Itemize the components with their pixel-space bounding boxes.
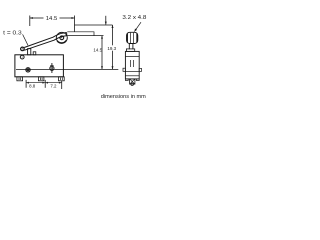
svg-text:7.2: 7.2 (50, 83, 57, 88)
switch body side view (125, 51, 139, 79)
mounting lug left (side view) (123, 68, 125, 71)
top dimension 14.5: dimension line with arrows (30, 17, 44, 19)
dimension line 14.5 (right, vertical) (101, 36, 103, 70)
extension line below terminal 2 (44, 80, 46, 88)
bottom dimension line 8.8 (26, 82, 45, 84)
svg-text:14.5: 14.5 (46, 16, 58, 22)
centerline through mounting holes (also bottom reference of right dims) (16, 68, 118, 70)
roller front view (56, 32, 67, 43)
white box behind 19.3 label (108, 45, 117, 50)
terminal 1 (17, 77, 23, 81)
mounting hole lower-left (26, 68, 30, 72)
terminal side view with hatch (130, 79, 135, 84)
extension line below terminal 1 (25, 80, 27, 88)
extension line B from roller top (67, 32, 94, 36)
boss on body top (33, 52, 36, 55)
mounting hole upper-left (20, 55, 24, 59)
switch body front view (15, 55, 64, 77)
leader line for t=0.3 (23, 34, 28, 45)
terminal 3 (59, 77, 65, 81)
lever arm (24, 33, 67, 51)
internal contact lines side view (129, 60, 131, 67)
svg-text:14.5: 14.5 (93, 48, 102, 53)
svg-text:8.8: 8.8 (29, 83, 36, 88)
roller side view (127, 32, 138, 43)
terminal 2 (38, 77, 44, 81)
adjustment screw with slot (50, 66, 54, 70)
extension line below terminal 3 (61, 81, 63, 90)
svg-text:dimensions in mm: dimensions in mm (101, 94, 146, 100)
foot left (side view) (125, 79, 128, 81)
leader line for 3.2 x 4.8 roller size (134, 22, 141, 31)
plunger (28, 49, 31, 55)
lever neck side view (128, 44, 130, 50)
top dimension 14.5: left extension line (29, 16, 31, 27)
svg-text:19.3: 19.3 (107, 46, 116, 51)
outside arrow stub above extension line A (105, 16, 107, 25)
dimension line 19.3 (right, vertical) (112, 25, 114, 69)
svg-text:t = 0.3: t = 0.3 (3, 31, 22, 37)
mounting lug right (side view) (139, 68, 141, 71)
extension line B2 from roller hub (67, 35, 103, 37)
plunger platform side view (126, 49, 134, 52)
top dimension 14.5: right extension line down to roller (74, 16, 76, 32)
foot right (side view) (136, 79, 139, 81)
extension line A (top of free position) (75, 24, 113, 26)
svg-text:3.2 x 4.8: 3.2 x 4.8 (122, 15, 146, 21)
lever pivot curl (21, 47, 25, 51)
bottom dimension line 7.2 (45, 82, 62, 84)
